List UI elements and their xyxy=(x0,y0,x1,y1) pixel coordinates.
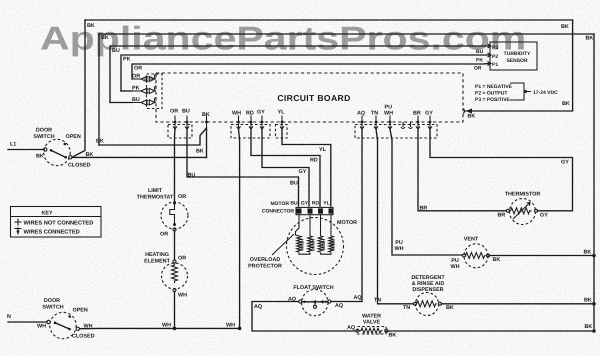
pin spare 1 of circuit board xyxy=(401,122,405,129)
wire GY pin to motor connector xyxy=(262,129,309,206)
pin YL of circuit board xyxy=(280,116,284,130)
wire PU-WH pin to vent xyxy=(390,129,462,255)
wire PK turbidity xyxy=(121,55,489,91)
wire BK2 right bus drop xyxy=(593,34,595,331)
connector arrows PK row xyxy=(132,86,156,94)
wire TN pin to dispenser xyxy=(376,129,413,304)
node junction WH-bus xyxy=(238,327,242,331)
motor winding labels xyxy=(300,239,336,251)
connector arrow BK into circuit board xyxy=(463,108,472,113)
wire PK row into circuit board xyxy=(121,90,132,92)
node junction vent-bus xyxy=(592,254,596,258)
node junction dispenser-bus xyxy=(592,302,596,306)
wire OR chain down xyxy=(174,129,177,201)
pin GY2 of circuit board xyxy=(428,116,432,130)
wire BK2 from BK pin diagonal xyxy=(99,128,207,145)
overload protector pointer xyxy=(272,234,294,255)
wire BK vent to right bus xyxy=(490,255,595,257)
thermistor TH1 xyxy=(507,199,538,225)
motor connector J1 xyxy=(296,207,333,214)
pin WH of circuit board xyxy=(237,116,241,130)
wire BU turbidity xyxy=(110,46,489,103)
pin GY of circuit board xyxy=(260,116,264,130)
turbidity legend bracket xyxy=(510,83,531,100)
connector arrows BU row xyxy=(132,97,156,105)
limit thermostat TS1 xyxy=(161,202,188,232)
wire OR turbidity xyxy=(132,64,489,80)
wire BK dispenser to right bus xyxy=(442,303,595,305)
wire OR thermostat to heater xyxy=(174,231,176,260)
wire OR row into circuit board xyxy=(138,78,156,80)
wire BK2 top run xyxy=(99,33,594,35)
wire BK2 left riser xyxy=(98,34,100,145)
wire BK pin to door switch line xyxy=(206,129,208,158)
connector dashed box pins OR BU xyxy=(168,125,192,139)
pin RD of circuit board xyxy=(249,116,253,130)
wire BK1 top run xyxy=(85,19,573,21)
circuit board dashed box xyxy=(156,73,463,122)
float switch FS1 xyxy=(299,289,331,315)
scan noise overlay xyxy=(0,0,1,1)
turbidity sensor U1 box xyxy=(490,42,537,70)
motor M1 xyxy=(287,215,344,275)
wire BU pin to motor connector xyxy=(187,129,299,206)
wire N feed xyxy=(8,321,47,323)
connector dashed box pin YL xyxy=(276,125,288,139)
wire RD pin to motor connector xyxy=(251,129,320,206)
water valve WV1 xyxy=(356,327,388,335)
detergent dispenser DP1 xyxy=(414,293,442,316)
node junction valve-bus xyxy=(592,329,596,333)
wire AQ float to water valve xyxy=(252,302,356,332)
node junction heater-bus xyxy=(173,327,177,331)
wire BK door switch output xyxy=(72,156,207,158)
wire L1 feed xyxy=(8,149,44,151)
wire WH heater to neutral bus xyxy=(174,292,176,329)
wire BU row into circuit board xyxy=(110,102,132,104)
wire GY2 pin staircase to thermistor xyxy=(430,129,573,211)
vent VT1 xyxy=(463,244,490,268)
wire WH neutral bus xyxy=(80,327,240,329)
heating element HE1 xyxy=(162,260,188,292)
door switch DS2 (lower) xyxy=(47,312,80,338)
connector arrows turbidity pins xyxy=(484,44,491,66)
wire BK valve to right bus xyxy=(386,330,594,332)
pin BR of circuit board xyxy=(416,116,420,130)
pin PU-WH of circuit board xyxy=(388,116,392,130)
pin OR of circuit board xyxy=(173,116,177,130)
pin TN of circuit board xyxy=(374,116,378,130)
pin AQ of circuit board xyxy=(360,116,364,130)
connector dashed box pins WH RD GY xyxy=(231,125,270,139)
wire BK1 left riser xyxy=(73,20,86,157)
pin BK of circuit board xyxy=(205,116,208,130)
key legend box xyxy=(11,207,102,238)
pin spare 2 of circuit board xyxy=(409,122,413,129)
door switch DS1 (upper) xyxy=(44,139,72,165)
wire AQ pin to float switch xyxy=(331,129,362,302)
wire WH pin to neutral bus xyxy=(239,129,240,328)
connector dashed box pins AQ..GY xyxy=(355,125,437,139)
connector arrows OR row xyxy=(132,74,156,82)
connector dashed block left of circuit board xyxy=(147,74,163,109)
wire BR pin to thermistor xyxy=(418,129,506,211)
wire YL pin to motor connector xyxy=(282,129,331,206)
pin BU of circuit board xyxy=(185,116,189,130)
wire BK1 right drop to circuit board xyxy=(466,20,573,111)
